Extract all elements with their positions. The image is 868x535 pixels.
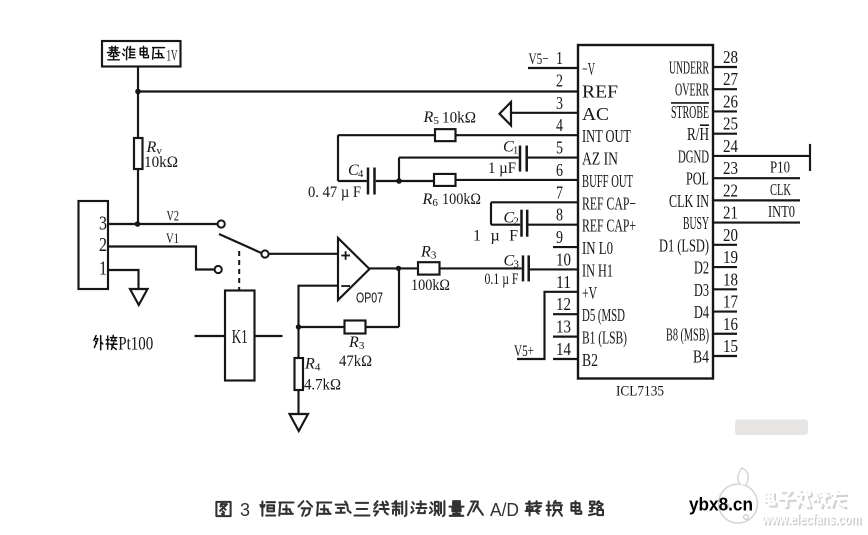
svg-text:22: 22 <box>723 180 738 200</box>
svg-text:4: 4 <box>315 362 321 374</box>
svg-text:10kΩ: 10kΩ <box>442 110 476 127</box>
svg-text:REF CAP−: REF CAP− <box>582 193 636 213</box>
svg-text:INT OUT: INT OUT <box>582 126 631 146</box>
svg-text:BUSY: BUSY <box>683 213 709 233</box>
svg-text:V5+: V5+ <box>514 343 534 360</box>
svg-text:R: R <box>423 109 434 126</box>
svg-text:IN L0: IN L0 <box>582 238 613 258</box>
svg-text:27: 27 <box>723 69 738 89</box>
svg-text:11: 11 <box>556 272 571 292</box>
svg-text:3: 3 <box>99 213 107 235</box>
svg-text:POL: POL <box>686 169 709 189</box>
svg-text:V5−: V5− <box>529 51 549 68</box>
svg-text:2: 2 <box>513 216 519 228</box>
svg-text:6: 6 <box>432 197 438 209</box>
svg-text:8: 8 <box>556 205 563 225</box>
svg-text:3: 3 <box>359 340 365 352</box>
svg-text:ybx8.cn: ybx8.cn <box>689 495 753 515</box>
svg-text:R: R <box>420 244 431 261</box>
svg-text:AC: AC <box>582 104 609 124</box>
svg-text:DGND: DGND <box>678 146 709 166</box>
svg-text:B2: B2 <box>582 350 598 370</box>
svg-text:www.elecfans.com: www.elecfans.com <box>761 512 861 528</box>
svg-text:10kΩ: 10kΩ <box>144 154 178 171</box>
svg-text:23: 23 <box>723 158 738 178</box>
svg-text:INT0: INT0 <box>768 202 795 221</box>
svg-text:1: 1 <box>556 48 563 68</box>
svg-text:18: 18 <box>723 269 738 289</box>
svg-text:2: 2 <box>99 234 107 256</box>
svg-text:100kΩ: 100kΩ <box>442 191 481 208</box>
svg-text:4: 4 <box>556 115 563 135</box>
svg-text:P10: P10 <box>770 158 790 177</box>
svg-text:19: 19 <box>723 247 738 267</box>
svg-text:OVERR: OVERR <box>675 80 709 100</box>
svg-text:4: 4 <box>358 168 364 180</box>
svg-text:47kΩ: 47kΩ <box>339 353 372 370</box>
svg-text:25: 25 <box>723 114 738 134</box>
svg-text:1V: 1V <box>167 48 178 65</box>
svg-text:IN H1: IN H1 <box>582 260 613 280</box>
svg-text:1: 1 <box>99 258 107 280</box>
svg-text:5: 5 <box>556 138 563 158</box>
svg-text:1: 1 <box>513 145 519 157</box>
svg-text:10: 10 <box>556 249 571 269</box>
svg-text:D1 (LSD): D1 (LSD) <box>659 235 709 256</box>
svg-text:AZ IN: AZ IN <box>582 149 618 169</box>
svg-text:R: R <box>422 191 433 208</box>
svg-text:26: 26 <box>723 91 738 111</box>
svg-text:16: 16 <box>723 314 738 334</box>
svg-text:CLK: CLK <box>770 180 791 199</box>
svg-text:K1: K1 <box>232 326 248 348</box>
svg-text:D4: D4 <box>694 302 709 322</box>
svg-text:0.1 µ F: 0.1 µ F <box>485 271 519 288</box>
svg-text:3: 3 <box>556 93 563 113</box>
svg-text:6: 6 <box>556 160 563 180</box>
svg-text:+V: +V <box>582 283 597 303</box>
svg-text:D5 (MSD: D5 (MSD <box>582 305 625 326</box>
svg-text:9: 9 <box>556 227 563 247</box>
svg-text:28: 28 <box>723 47 738 67</box>
svg-text:R: R <box>304 356 315 373</box>
svg-text:D3: D3 <box>694 280 709 300</box>
svg-text:STROBE: STROBE <box>671 102 709 122</box>
svg-text:V1: V1 <box>166 231 179 247</box>
svg-text:CLK IN: CLK IN <box>669 191 709 211</box>
svg-text:21: 21 <box>723 203 738 223</box>
svg-text:13: 13 <box>556 317 571 337</box>
svg-text:3: 3 <box>431 250 437 262</box>
svg-text:B1 (LSB): B1 (LSB) <box>582 328 627 349</box>
svg-text:24: 24 <box>723 136 738 156</box>
svg-text:REF CAP+: REF CAP+ <box>582 216 636 236</box>
svg-text:−V: −V <box>582 59 595 79</box>
svg-text:12: 12 <box>556 294 571 314</box>
svg-text:B4: B4 <box>693 346 709 366</box>
svg-text:5: 5 <box>433 115 439 127</box>
svg-text:A/D: A/D <box>490 500 519 520</box>
svg-text:3: 3 <box>513 259 519 271</box>
svg-text:20: 20 <box>723 225 738 245</box>
svg-text:ICL7135: ICL7135 <box>616 384 664 400</box>
svg-text:7: 7 <box>556 182 563 202</box>
svg-text:V2: V2 <box>167 209 180 225</box>
svg-text:Pt100: Pt100 <box>118 334 153 355</box>
svg-text:4.7kΩ: 4.7kΩ <box>304 377 341 394</box>
svg-text:R: R <box>348 334 359 351</box>
svg-text:100kΩ: 100kΩ <box>411 277 450 294</box>
svg-text:1 µ F: 1 µ F <box>473 228 518 245</box>
svg-text:2: 2 <box>556 70 563 90</box>
svg-text:17: 17 <box>723 292 738 312</box>
svg-text:B8 (MSB): B8 (MSB) <box>666 324 709 345</box>
svg-text:REF: REF <box>582 81 618 101</box>
svg-text:UNDERR: UNDERR <box>669 58 709 78</box>
svg-text:15: 15 <box>723 336 738 356</box>
svg-text:1 µF: 1 µF <box>488 160 516 177</box>
svg-text:3: 3 <box>240 500 250 520</box>
svg-text:R/H: R/H <box>687 124 709 144</box>
svg-text:OP07: OP07 <box>356 290 383 307</box>
svg-text:14: 14 <box>556 339 571 359</box>
svg-text:BUFF OUT: BUFF OUT <box>582 171 633 191</box>
svg-text:D2: D2 <box>694 258 709 278</box>
svg-text:0. 47 µ F: 0. 47 µ F <box>308 184 361 201</box>
